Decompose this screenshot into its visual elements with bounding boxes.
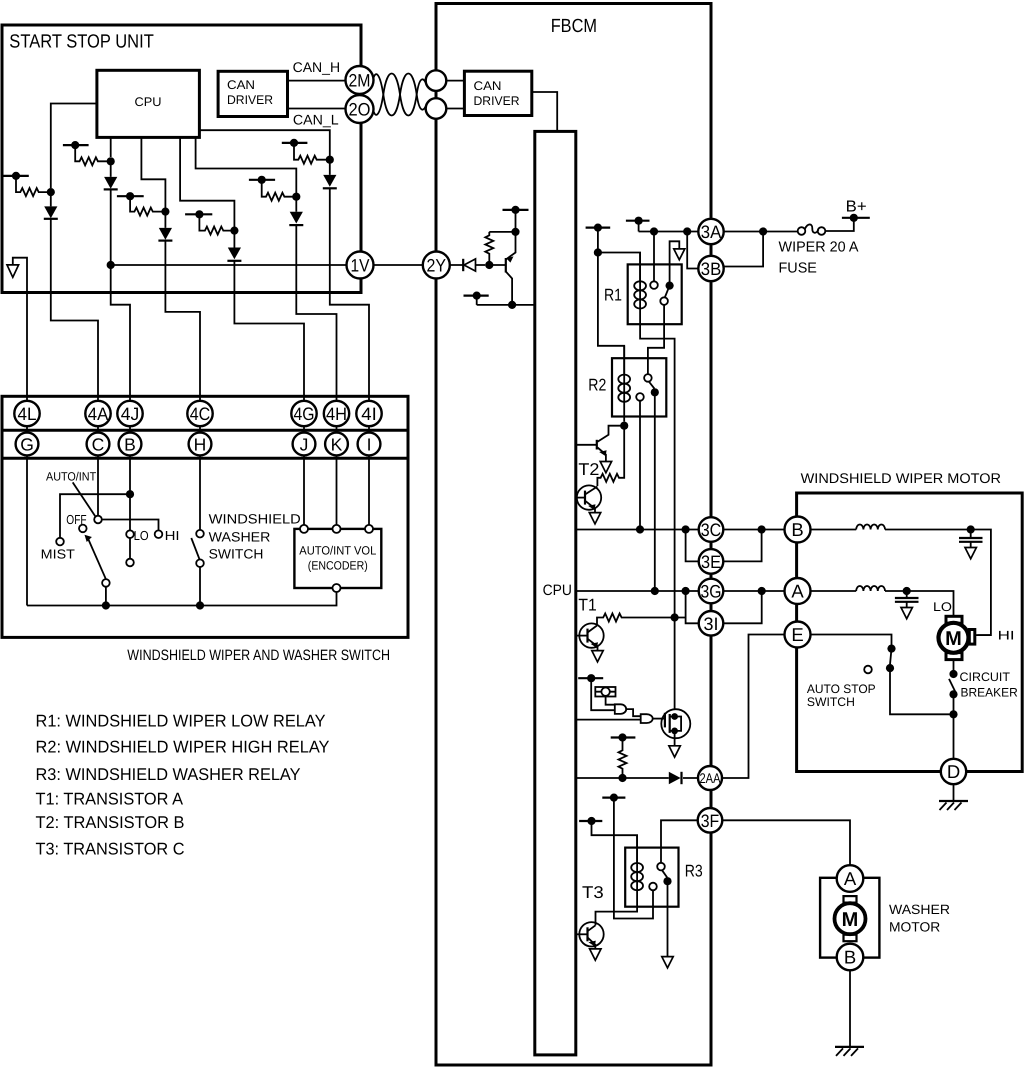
- wire 3A to fuse: [724, 231, 798, 233]
- wire LO to lower contact: [129, 538, 131, 559]
- node junction R1 contact on 3A bus: [650, 227, 658, 235]
- node junction breaker/auto-stop: [949, 710, 957, 718]
- connector 2Y: [423, 252, 450, 279]
- svg-text:MOTOR: MOTOR: [889, 919, 941, 934]
- circuit breaker CB1: [949, 670, 1018, 714]
- svg-text:CAN: CAN: [474, 79, 502, 93]
- wire 2AA line from CPU: [576, 777, 698, 779]
- connector 2AA: [698, 766, 722, 790]
- capacitor C2 (A line): [895, 591, 919, 607]
- wire D to ground: [953, 784, 955, 801]
- open arrow (T3 emitter): [590, 949, 601, 960]
- wire J column: [303, 401, 305, 525]
- svg-text:LO: LO: [134, 528, 149, 543]
- CPU U2 tall box (FBCM): [535, 131, 576, 1055]
- contact circle H (washer switch): [196, 530, 204, 538]
- svg-text:4H: 4H: [326, 404, 347, 424]
- svg-text:T1: TRANSISTOR A: T1: TRANSISTOR A: [36, 790, 184, 809]
- svg-text:FUSE: FUSE: [779, 260, 818, 276]
- open arrow (MOSFET source): [669, 746, 680, 757]
- pin K: [325, 433, 348, 456]
- svg-text:3B: 3B: [701, 259, 722, 279]
- node junction 2Y base: [485, 261, 493, 269]
- svg-text:M: M: [842, 909, 859, 931]
- power stub (oscillator): [578, 674, 615, 710]
- wire 3F to washer motor A: [722, 820, 850, 865]
- wire MIST branch: [60, 494, 130, 538]
- wiper switch arm SW2: [85, 535, 110, 606]
- connector 3B: [698, 256, 723, 281]
- svg-text:4C: 4C: [190, 404, 211, 424]
- CAN DRIVER box (start stop unit): [218, 71, 287, 116]
- power stub (network 5): [249, 176, 275, 184]
- power stub (network 1): [2, 172, 29, 180]
- wire A line to motor LO: [907, 591, 954, 616]
- contact circle J (encoder): [300, 525, 308, 533]
- label WINDSHIELD WASHER SWITCH: [209, 512, 301, 562]
- node junction 3E jumper left: [682, 525, 690, 533]
- wire 3C line (CPU to 3C): [576, 529, 699, 531]
- svg-text:(ENCODER): (ENCODER): [308, 559, 368, 573]
- ground (open arrow) start stop unit: [7, 258, 27, 403]
- wire 1V line: [111, 264, 347, 266]
- wire from CPU bottom to network 3: [141, 137, 165, 208]
- svg-text:WASHER: WASHER: [889, 902, 950, 917]
- auto stop switch SW1: [807, 645, 954, 715]
- wire B column: [129, 401, 131, 530]
- contact circle R3 lower: [649, 883, 657, 891]
- svg-text:AUTO STOP: AUTO STOP: [807, 682, 876, 696]
- svg-text:CAN_L: CAN_L: [293, 112, 339, 128]
- START STOP UNIT box: [2, 25, 361, 293]
- wire B line to motor HI: [971, 530, 991, 636]
- power stub (R1 coil feed): [586, 224, 611, 253]
- wire H column: [199, 401, 201, 530]
- node junction long vertical on T1 line: [671, 613, 679, 621]
- wire bottom bus: [27, 592, 337, 606]
- connector 4L: [14, 401, 39, 426]
- svg-text:R3: R3: [685, 862, 703, 881]
- wire network2 to 4J: [111, 293, 130, 402]
- contact circle C (AUTO/INT): [94, 516, 102, 524]
- svg-text:WINDSHIELD WIPER MOTOR: WINDSHIELD WIPER MOTOR: [801, 470, 1001, 486]
- wire 3A bus: [639, 231, 699, 233]
- relay R2 box: [588, 358, 666, 416]
- svg-text:B: B: [791, 519, 803, 540]
- wire R1 moving contact to arrow: [670, 241, 680, 285]
- washer switch arm SW3: [191, 538, 204, 606]
- power stub (2Y lower): [464, 292, 489, 305]
- svg-text:4G: 4G: [294, 404, 315, 424]
- node junction 3E jumper right: [758, 525, 766, 533]
- connector 3I: [699, 611, 724, 636]
- motor M1 (wiper): [939, 616, 992, 659]
- relay R3 coil: [596, 835, 638, 925]
- wire E line to auto stop switch: [811, 635, 892, 646]
- connector 2M: [346, 66, 374, 94]
- wire from CPU bottom to network 4: [180, 137, 234, 227]
- connector B (wiper motor): [785, 517, 811, 543]
- open arrow (R3 output): [662, 957, 673, 968]
- svg-text:B+: B+: [846, 199, 867, 216]
- svg-text:FBCM: FBCM: [551, 16, 597, 37]
- contact circle R1 fixed: [650, 281, 658, 289]
- node junction (network 1): [47, 188, 55, 196]
- open arrow (C1 ground): [965, 548, 976, 559]
- wire R2 moving contact to 3G line: [654, 392, 656, 591]
- svg-text:MIST: MIST: [41, 546, 75, 561]
- resistor (network 4): [199, 214, 234, 234]
- svg-text:2M: 2M: [349, 71, 371, 91]
- connector 3E: [699, 549, 724, 574]
- wire FBCM can circles to driver: [436, 81, 464, 109]
- svg-text:BREAKER: BREAKER: [961, 686, 1018, 700]
- wire network6 to 4I: [330, 293, 369, 402]
- node junction (network 5): [292, 193, 300, 201]
- encoder box AUTO/INT VOL: [294, 529, 381, 588]
- wire R1 fixed contact up: [653, 232, 655, 282]
- svg-text:4A: 4A: [88, 404, 109, 424]
- svg-text:R2: WINDSHIELD WIPER HIGH RELA: R2: WINDSHIELD WIPER HIGH RELAY: [36, 738, 330, 757]
- wire network3 to 4C: [165, 293, 200, 402]
- connector 3C: [699, 517, 724, 542]
- wire R2 lower contact to 3C line: [639, 401, 641, 530]
- wire 3E jumper left: [686, 530, 699, 562]
- svg-text:T2: TRANSISTOR B: T2: TRANSISTOR B: [36, 813, 185, 832]
- resistor (network 6): [294, 143, 330, 164]
- wire from CPU bottom to network 2: [110, 137, 112, 157]
- power stub (R3 lower contact feed): [602, 794, 653, 919]
- contact circle R2 lower: [636, 393, 644, 401]
- svg-text:T3: T3: [582, 883, 604, 902]
- diode (network 1): [44, 192, 58, 292]
- wire network5 to 4H: [296, 293, 336, 402]
- connector 3A: [698, 219, 723, 244]
- open arrow (T1 emitter): [592, 651, 603, 662]
- connector 3G: [699, 579, 724, 604]
- svg-text:B: B: [844, 947, 856, 968]
- WINDSHIELD WIPER AND WASHER SWITCH box: [2, 396, 408, 664]
- svg-text:SWITCH: SWITCH: [807, 695, 855, 709]
- svg-text:R1: R1: [604, 286, 622, 305]
- motor M2 (washer): [835, 896, 951, 941]
- pin G: [16, 433, 39, 456]
- resistor (network 5): [262, 180, 297, 201]
- contact circle I (encoder): [365, 525, 373, 533]
- svg-text:4J: 4J: [121, 404, 140, 424]
- svg-text:CAN: CAN: [227, 78, 255, 92]
- pin C: [87, 433, 110, 456]
- svg-text:C: C: [92, 434, 105, 454]
- diode (network 5): [289, 197, 303, 293]
- svg-text:T3: TRANSISTOR C: T3: TRANSISTOR C: [36, 839, 185, 858]
- wire R3 moving contact down: [667, 881, 669, 956]
- relay R2 coil: [623, 346, 625, 422]
- wire to R1 coil: [598, 253, 640, 282]
- wire I column: [368, 401, 370, 525]
- node junction 3B jumper outside: [759, 227, 767, 235]
- CAN DRIVER box (FBCM): [464, 71, 531, 115]
- node junction T2 collector / R2 coil: [620, 422, 628, 430]
- svg-text:DRIVER: DRIVER: [474, 94, 520, 108]
- open arrow (T2a emitter): [600, 462, 611, 473]
- contact circle K (encoder): [333, 525, 341, 533]
- svg-text:M: M: [945, 628, 962, 650]
- svg-text:HI: HI: [165, 528, 180, 543]
- wire 3F left to R3 contact: [661, 820, 698, 863]
- svg-text:WINDSHIELD WIPER AND WASHER SW: WINDSHIELD WIPER AND WASHER SWITCH: [127, 647, 390, 664]
- svg-text:CPU: CPU: [543, 582, 572, 599]
- CPU U1 box (start stop unit): [97, 70, 199, 137]
- svg-text:OFF: OFF: [66, 512, 86, 527]
- wire fuse to B+: [825, 218, 854, 231]
- svg-text:WIPER 20 A: WIPER 20 A: [779, 240, 859, 256]
- open arrow (T2 emitter): [589, 513, 600, 524]
- svg-text:DRIVER: DRIVER: [227, 93, 273, 107]
- transistor T3: [576, 883, 604, 949]
- wire CPU to gate2: [576, 719, 641, 721]
- contact circle below LO: [126, 559, 134, 567]
- node junction emitter bottom: [508, 301, 516, 309]
- contact circle LO: [126, 528, 148, 543]
- transistor T2: [576, 460, 601, 513]
- pin H: [189, 433, 212, 456]
- resistor (2Y pullup): [485, 232, 493, 261]
- wire 3B jumper (inside): [687, 232, 698, 269]
- WINDSHIELD WIPER MOTOR box: [797, 470, 1023, 772]
- relay R3 moving contact: [662, 870, 672, 885]
- ground (washer motor): [835, 1047, 864, 1056]
- transistor Q1 (2Y input PNP): [489, 232, 515, 305]
- connector B (washer motor): [837, 944, 864, 971]
- svg-text:E: E: [791, 624, 803, 645]
- label AUTO/INT with pointer: [46, 469, 97, 516]
- svg-text:J: J: [300, 434, 309, 454]
- svg-text:2AA: 2AA: [700, 770, 722, 786]
- diode D2 (2AA): [669, 772, 682, 784]
- pin J: [293, 433, 316, 456]
- transistor Q3 (MOSFET): [661, 709, 690, 746]
- svg-text:CIRCUIT: CIRCUIT: [960, 670, 1011, 684]
- diode D1 (2Y input): [450, 259, 485, 271]
- wire C contact to HI contact: [102, 520, 159, 531]
- resistor (T1): [597, 614, 686, 626]
- node junction wiper arm on bus: [102, 601, 110, 609]
- svg-text:CPU: CPU: [135, 95, 162, 109]
- wire 1V to 2Y: [374, 264, 423, 266]
- svg-text:2Y: 2Y: [427, 256, 447, 276]
- power stub (network 6): [282, 139, 308, 147]
- washer motor box: [820, 878, 879, 958]
- svg-text:WINDSHIELD: WINDSHIELD: [209, 512, 301, 527]
- resistor (network 2): [75, 145, 111, 165]
- svg-text:SWITCH: SWITCH: [209, 547, 264, 562]
- connector 1V: [347, 252, 374, 279]
- node junction (network 2): [107, 157, 115, 165]
- node junction B capacitor: [967, 525, 975, 533]
- svg-text:A: A: [844, 868, 857, 889]
- svg-text:D: D: [947, 761, 960, 782]
- svg-text:START STOP UNIT: START STOP UNIT: [9, 32, 154, 53]
- wire 3B jumper (outside): [724, 232, 763, 267]
- gate G1 (AND): [615, 704, 626, 714]
- wire resistor top to emitter rail: [489, 231, 515, 233]
- svg-text:1V: 1V: [351, 256, 370, 276]
- wire K column: [336, 401, 338, 525]
- node junction (network 3): [161, 208, 169, 216]
- svg-text:HI: HI: [998, 629, 1015, 643]
- connector A (wiper motor): [785, 578, 811, 604]
- transistor Q2a (T2 driver): [576, 426, 624, 462]
- wire 3C to B: [723, 529, 784, 531]
- wire CAN driver to CPU: [532, 92, 557, 131]
- wire motor to circuit breaker: [953, 660, 955, 674]
- wire G column: [26, 401, 28, 606]
- node junction B wire: [126, 490, 134, 498]
- wire from CPU bottom to network 5: [196, 137, 297, 193]
- svg-text:K: K: [331, 434, 343, 454]
- svg-text:3F: 3F: [701, 811, 720, 831]
- diode (network 4): [227, 231, 241, 293]
- wire 3E jumper right: [723, 530, 761, 562]
- gate G2 (AND): [641, 714, 653, 723]
- connector 4I: [356, 401, 381, 426]
- svg-text:3I: 3I: [704, 614, 719, 634]
- power stub (network 3): [117, 192, 144, 200]
- svg-text:G: G: [20, 434, 34, 454]
- diode (network 2): [104, 161, 118, 292]
- wire breaker to D: [953, 714, 955, 759]
- open arrow (R1 output): [674, 249, 685, 260]
- relay R3 box: [625, 848, 703, 907]
- connector A (washer motor): [837, 865, 864, 892]
- node junction resistor on 2AA line: [618, 774, 626, 782]
- wire CAN_H net: [288, 59, 347, 81]
- power stub (network 2): [63, 141, 89, 149]
- relay R1 moving contact: [660, 282, 673, 305]
- svg-text:LO: LO: [933, 600, 952, 614]
- transistor T1: [576, 596, 604, 651]
- svg-text:A: A: [791, 581, 804, 602]
- svg-text:3C: 3C: [701, 520, 722, 540]
- connector 4G: [291, 401, 316, 426]
- resistor (2AA line): [619, 738, 627, 779]
- node junction R1 coil feed: [594, 248, 602, 256]
- contact circle R3 upper: [657, 863, 665, 871]
- svg-text:WASHER: WASHER: [209, 530, 271, 545]
- resistor (T2): [597, 426, 624, 486]
- wire gate2 out to MOSFET gate: [653, 718, 665, 720]
- wire 3G line (CPU to 3G): [576, 590, 699, 592]
- node junction (network 6): [326, 156, 334, 164]
- wire network4 to 4G: [234, 293, 304, 402]
- node junction emitter rail: [511, 228, 519, 236]
- wire A line with inductor: [811, 586, 907, 591]
- connector 3F: [698, 808, 723, 833]
- power stub (3A rail): [626, 217, 650, 232]
- wire feed down to R2 coil: [598, 253, 624, 375]
- wire C column: [97, 401, 99, 516]
- open arrow (C2 ground): [901, 608, 912, 619]
- wire gate1 out to gate2: [626, 709, 641, 716]
- wire from CPU right to network 6: [199, 130, 329, 156]
- connector 2O: [346, 95, 374, 123]
- node circle CAN_L on FBCM edge: [426, 98, 447, 119]
- wire B line with inductor: [811, 525, 971, 530]
- pin B: [119, 433, 142, 456]
- wire network1 to 4A: [51, 293, 98, 402]
- connector 4J: [117, 401, 142, 426]
- node junction (network 4): [230, 227, 238, 235]
- connector E (wiper motor): [785, 622, 811, 648]
- svg-text:T2: T2: [578, 460, 599, 479]
- fuse WIPER 20 A FUSE: [779, 224, 859, 276]
- svg-text:AUTO/INT VOL: AUTO/INT VOL: [299, 544, 376, 558]
- power stub (2AA resistor): [611, 733, 636, 741]
- svg-text:3A: 3A: [701, 222, 722, 242]
- ground (wiper motor): [939, 801, 968, 810]
- svg-text:B: B: [124, 434, 136, 454]
- connector 4H: [324, 401, 349, 426]
- wire 3I jumper left: [686, 591, 699, 623]
- wire R1 coil bottom long vertical: [640, 324, 675, 709]
- node junction R2 contact on 3C line: [636, 525, 644, 533]
- relay R2 moving contact: [649, 382, 659, 397]
- power stub (network 4): [185, 210, 212, 218]
- wire 2AA to E: [722, 635, 785, 779]
- diode (network 3): [158, 212, 172, 293]
- node junction A capacitor: [903, 587, 911, 595]
- svg-text:I: I: [367, 434, 372, 454]
- node circle CAN_H on FBCM edge: [426, 70, 447, 91]
- power stub (R3 coil feed): [579, 817, 637, 863]
- wire R1 lower contact to R2 contact: [648, 305, 664, 374]
- svg-text:AUTO/INT: AUTO/INT: [46, 469, 97, 483]
- wire emitter line to CPU: [477, 304, 535, 306]
- capacitor C1 (B line): [959, 530, 983, 548]
- wire from CPU left to network 1: [51, 104, 97, 189]
- wire washer B to ground: [849, 970, 851, 1047]
- svg-text:2O: 2O: [349, 100, 371, 120]
- contact circle R2 upper: [644, 374, 652, 382]
- svg-text:H: H: [194, 434, 207, 454]
- relay R1 coil: [639, 253, 641, 325]
- resistor (network 3): [130, 196, 165, 215]
- node junction 3I jumper left: [682, 587, 690, 595]
- pin I: [358, 433, 381, 456]
- contact circle OFF: [66, 512, 86, 532]
- svg-text:R2: R2: [588, 376, 606, 395]
- wire 3I jumper right: [723, 591, 761, 623]
- contact circle MIST: [41, 538, 75, 562]
- svg-text:4L: 4L: [18, 404, 37, 424]
- oscillator X1: [595, 687, 615, 705]
- connector 4A: [85, 401, 110, 426]
- svg-text:T1: T1: [578, 596, 596, 615]
- wire CAN_L net: [288, 109, 347, 128]
- svg-text:R1: WINDSHIELD WIPER LOW RELAY: R1: WINDSHIELD WIPER LOW RELAY: [36, 712, 326, 731]
- contact circle encoder bottom: [333, 584, 341, 592]
- svg-text:3E: 3E: [701, 552, 721, 572]
- contact circle HI: [155, 528, 180, 543]
- connector 4C: [187, 401, 212, 426]
- resistor (network 1): [16, 176, 51, 196]
- wire 3G to A: [723, 590, 784, 592]
- svg-text:3G: 3G: [701, 582, 722, 602]
- node junction 3B jumper on 3A bus: [683, 227, 691, 235]
- node junction on 1V line: [107, 261, 115, 269]
- diode (network 6): [323, 160, 337, 293]
